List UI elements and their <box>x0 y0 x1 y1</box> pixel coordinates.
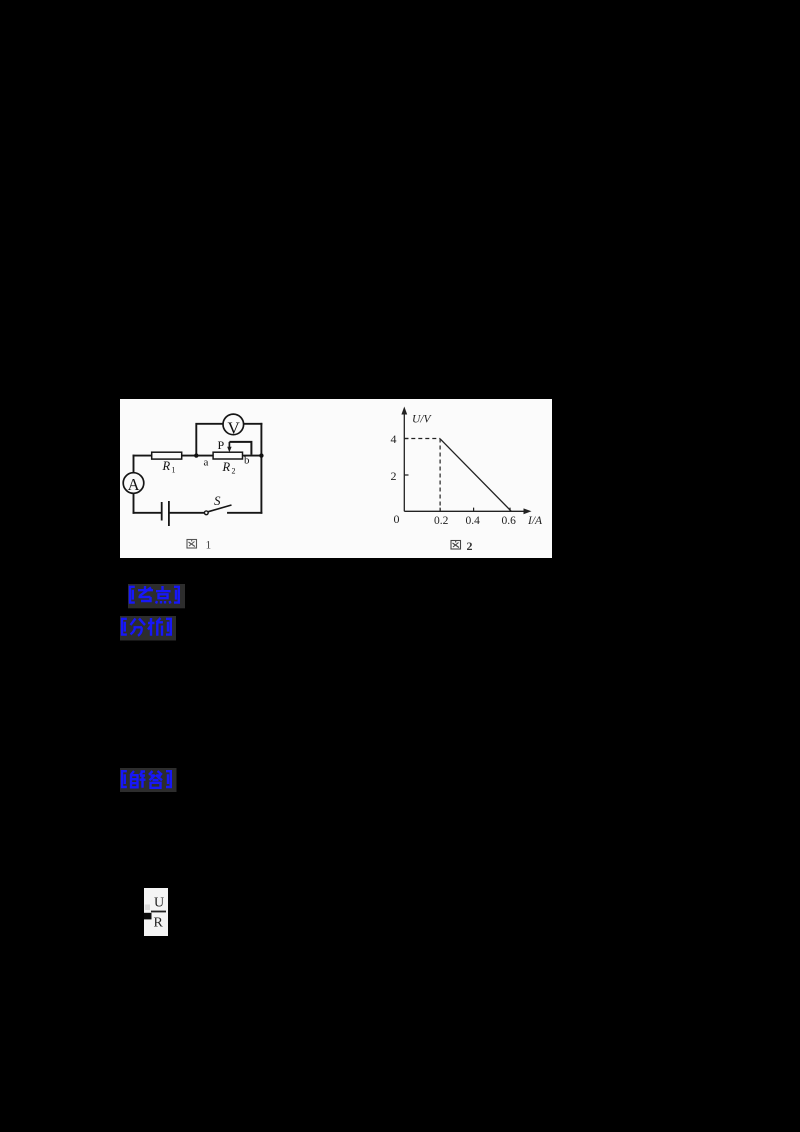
tick marks <box>404 439 510 512</box>
svg-text:1: 1 <box>172 466 176 475</box>
figure image (white panel with circuit 图1 and graph 图2) <box>120 399 552 558</box>
svg-text:A: A <box>128 475 140 494</box>
wire: battery to switch <box>169 512 204 514</box>
graph x-axis <box>404 510 525 512</box>
svg-text:0.4: 0.4 <box>466 515 481 527</box>
wire: top left main <box>134 455 152 457</box>
wire: left vertical above ammeter <box>133 456 135 473</box>
caption 图1 <box>187 540 197 549</box>
svg-text:V: V <box>228 418 241 437</box>
label 【分析】 <box>120 616 178 641</box>
dashed guide lines <box>404 439 440 512</box>
svg-text:R: R <box>162 459 171 473</box>
svg-text:I/A: I/A <box>527 515 543 527</box>
node b junction dot <box>259 453 263 457</box>
wire: right vertical branch <box>260 424 262 513</box>
ammeter A <box>123 473 144 494</box>
wire: V right lead <box>244 423 262 425</box>
label 【考点】 <box>128 584 186 609</box>
svg-text:S: S <box>214 493 221 508</box>
svg-text:b: b <box>244 455 250 467</box>
svg-text:U: U <box>154 896 164 911</box>
caption 图2 <box>451 541 461 550</box>
U-I characteristic line <box>440 439 511 512</box>
label 【解答】 <box>120 768 178 793</box>
svg-text:R: R <box>154 916 164 931</box>
svg-text:2: 2 <box>467 539 473 553</box>
svg-text:0.2: 0.2 <box>434 515 449 527</box>
wire: switch to right corner <box>228 512 261 514</box>
svg-text:0: 0 <box>394 512 400 526</box>
resistor R1 <box>152 452 182 459</box>
figure background <box>120 399 552 558</box>
node a junction dot <box>194 453 198 457</box>
svg-text:P: P <box>218 438 225 452</box>
battery cell <box>161 502 163 521</box>
wire: R2 to node b <box>243 455 262 457</box>
slider arrow <box>228 442 230 448</box>
wire: V left lead <box>196 424 223 456</box>
svg-text:R: R <box>222 460 231 474</box>
svg-text:2: 2 <box>391 469 397 483</box>
wire: R1 to node a <box>182 455 213 457</box>
svg-text:0.6: 0.6 <box>502 515 517 527</box>
wire: bottom left to battery <box>134 512 162 514</box>
svg-text:1: 1 <box>206 540 212 552</box>
equation fraction U/R box <box>144 888 168 936</box>
voltmeter V <box>223 414 244 435</box>
svg-text:4: 4 <box>391 432 397 446</box>
graph y-axis <box>403 413 405 511</box>
wire: left vertical below ammeter <box>133 493 135 512</box>
svg-text:2: 2 <box>232 467 236 476</box>
svg-text:a: a <box>204 457 209 469</box>
switch S <box>204 511 208 515</box>
rheostat slider P wire bracket <box>229 442 251 455</box>
svg-text:U/V: U/V <box>412 414 433 426</box>
rheostat R2 <box>213 452 242 459</box>
